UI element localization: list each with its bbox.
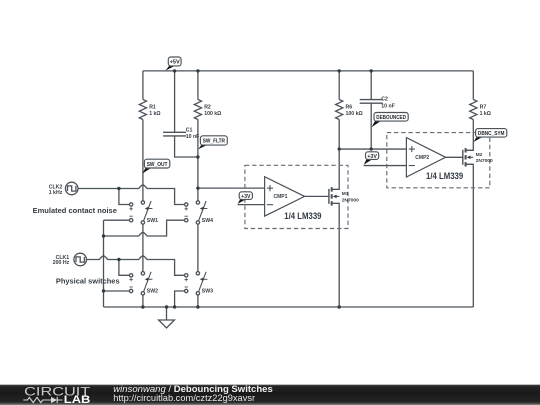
svg-text:+3V: +3V [367, 154, 377, 160]
svg-text:DBNC_SYM: DBNC_SYM [478, 131, 505, 137]
svg-text:R2: R2 [204, 105, 211, 111]
svg-text:200 Hz: 200 Hz [53, 260, 70, 266]
svg-text:SW2: SW2 [147, 289, 158, 295]
svg-text:10 nF: 10 nF [186, 134, 200, 140]
svg-text:SW_FLTR: SW_FLTR [203, 139, 225, 145]
svg-text:SW_OUT: SW_OUT [147, 162, 168, 168]
svg-text:1/4 LM339: 1/4 LM339 [284, 211, 321, 221]
svg-text:http://circuitlab.com/cztz22g9: http://circuitlab.com/cztz22g9xavsr [113, 393, 255, 403]
svg-text:10 nF: 10 nF [381, 103, 395, 109]
svg-text:DEBOUNCED: DEBOUNCED [376, 115, 406, 121]
svg-text:100 kΩ: 100 kΩ [204, 111, 221, 117]
svg-text:M1: M1 [342, 191, 349, 197]
svg-text:Physical switches: Physical switches [56, 277, 120, 286]
svg-text:1 kΩ: 1 kΩ [149, 111, 160, 117]
svg-text:100 kΩ: 100 kΩ [346, 111, 363, 117]
svg-text:C1: C1 [186, 127, 193, 133]
svg-text:R7: R7 [480, 105, 487, 111]
svg-text:C2: C2 [381, 97, 388, 103]
svg-text:CMP1: CMP1 [274, 194, 288, 200]
svg-text:R6: R6 [346, 105, 353, 111]
svg-text:2N7000: 2N7000 [476, 158, 493, 164]
svg-text:R1: R1 [149, 105, 156, 111]
svg-text:Emulated contact noise: Emulated contact noise [33, 206, 117, 215]
svg-text:1/4 LM339: 1/4 LM339 [426, 171, 463, 181]
svg-text:SW4: SW4 [202, 218, 213, 224]
svg-text:M2: M2 [476, 152, 483, 158]
svg-text:2N7000: 2N7000 [342, 197, 359, 203]
svg-text:1 kHz: 1 kHz [49, 190, 63, 196]
svg-text:LAB: LAB [64, 394, 91, 405]
svg-text:CMP2: CMP2 [415, 155, 429, 161]
svg-text:SW1: SW1 [147, 218, 158, 224]
svg-text:SW3: SW3 [202, 289, 213, 295]
svg-text:+5V: +5V [170, 60, 180, 66]
svg-text:1 kΩ: 1 kΩ [480, 111, 491, 117]
svg-text:+3V: +3V [241, 194, 251, 200]
